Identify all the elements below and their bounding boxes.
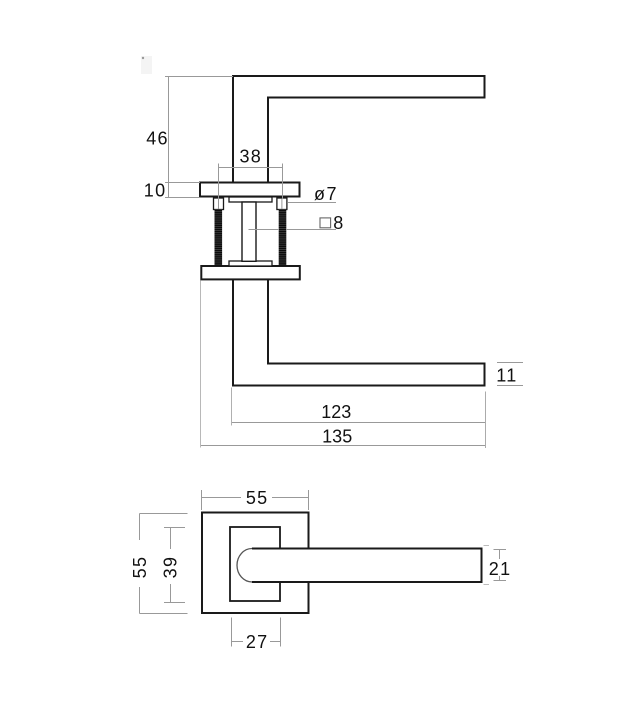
dimension 21 — [484, 546, 507, 585]
svg-text:55: 55 — [246, 488, 269, 508]
dimension 46 — [165, 77, 233, 198]
svg-text:123: 123 — [321, 402, 351, 422]
right bolt thread — [279, 209, 287, 266]
svg-text:39: 39 — [160, 556, 180, 579]
smudge artifact top-left — [141, 56, 152, 74]
top lever (upper handle outline) — [233, 76, 485, 183]
svg-text:21: 21 — [489, 559, 512, 579]
dimension 55 top — [202, 490, 309, 510]
dimension 55 left — [140, 514, 188, 614]
svg-text:27: 27 — [246, 632, 269, 652]
left bolt thread — [215, 209, 223, 266]
spindle top bushing — [229, 197, 272, 202]
dimension 135 — [201, 281, 486, 449]
svg-text:55: 55 — [130, 556, 150, 579]
spindle bottom bushing — [229, 261, 272, 266]
top rose (side view) — [200, 183, 300, 197]
front view: inner square — [230, 527, 280, 601]
svg-text:135: 135 — [322, 427, 352, 447]
dimension 123 — [232, 388, 486, 426]
dimension 27 — [232, 618, 281, 647]
svg-text:11: 11 — [496, 366, 517, 386]
dimension square 8 leader — [249, 229, 279, 231]
dimension 39 — [164, 528, 185, 603]
dimension 11 — [497, 363, 523, 386]
dimension 38 — [219, 164, 283, 200]
svg-text:8: 8 — [333, 213, 343, 233]
dimension 10 — [165, 197, 200, 199]
bottom lever (lower handle outline) — [233, 280, 485, 386]
svg-text:10: 10 — [144, 181, 167, 201]
dimension diameter 7 leader — [288, 202, 336, 204]
svg-text:38: 38 — [239, 147, 262, 167]
spindle (square bar) — [242, 202, 256, 261]
front view: handle bar — [237, 549, 481, 583]
front view: outer square rose — [202, 513, 309, 614]
left bolt head — [214, 198, 224, 210]
right bolt head — [277, 198, 287, 210]
bottom rose (side view) — [201, 266, 299, 279]
svg-text:46: 46 — [146, 129, 169, 149]
svg-text:ø7: ø7 — [314, 184, 338, 204]
